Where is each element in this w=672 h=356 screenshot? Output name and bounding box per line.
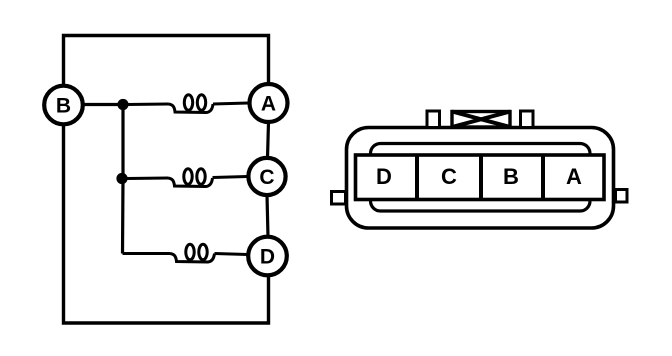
svg-text:B: B [56,95,71,118]
wire elbow to coil L3 [123,252,171,255]
connector latch bowtie [452,112,510,128]
svg-text:C: C [259,166,274,189]
wire vertical bus node A1 to elbow [121,105,125,254]
connector inner housing [371,144,591,212]
wire B to node A1 [83,103,123,106]
node A2 junction dot [116,173,127,184]
wire C to D link [267,195,268,237]
wire coil L3 to terminal D [215,254,248,255]
wire node A1 to coil L1 [123,103,169,107]
cavity divider D/C [415,155,419,200]
svg-text:A: A [566,164,582,189]
connector lock tab left (top) [427,111,440,128]
node A1 junction dot [117,99,128,110]
wire coil L1 to terminal A [213,103,249,104]
connector outer housing [347,128,614,229]
svg-text:B: B [503,164,519,189]
wire A to C link [268,122,269,158]
inductor L2 [168,169,213,187]
cavity divider C/B [479,155,483,200]
terminal A [250,84,288,122]
connector lock tab right (top) [521,111,534,128]
connector side tab right [616,190,628,203]
terminal B [44,86,83,125]
svg-text:C: C [441,164,457,189]
wire node A2 to coil L2 [122,177,168,181]
inductor L1 [169,95,214,113]
connector terminal strip [356,155,605,200]
wire bottom bus [64,125,269,323]
terminal D [248,237,287,276]
connector side tab left [332,192,346,205]
wire top bus [64,36,269,86]
svg-text:D: D [376,164,392,189]
wire coil L2 to terminal C [213,177,248,178]
inductor L3 [170,244,215,262]
svg-text:A: A [261,93,276,116]
svg-text:D: D [260,246,275,269]
cavity divider B/A [541,155,545,200]
terminal C [248,158,285,195]
